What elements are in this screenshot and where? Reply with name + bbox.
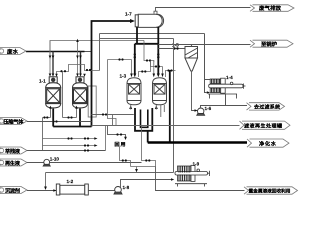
wire: drum top vent to off-gas banner — [154, 8, 251, 14]
wire: waste water feed line — [26, 51, 92, 53]
column T1-1a (A) — [46, 77, 61, 108]
pennant: regenerant — [0, 159, 27, 166]
svg-text:1-7: 1-7 — [125, 12, 132, 17]
wire: thin bottom pipes of columns C/D — [131, 105, 165, 117]
wire: heavy metal solution recovery line — [156, 167, 245, 191]
arrow into column C top — [133, 74, 136, 78]
pump P1-10 — [43, 159, 50, 166]
column T1-3a (C) — [127, 78, 141, 105]
wire: columns C/D regeneration drain stubs — [120, 126, 156, 170]
wire: cyclone underflow to pump 1-6 — [192, 71, 195, 111]
label reuse — [115, 141, 126, 148]
label 1-1 — [39, 79, 46, 84]
wire: top distribution header y=40 — [50, 41, 144, 57]
arrow into column D top — [157, 74, 160, 78]
pennant: to filtration system — [247, 103, 285, 110]
column T1-1b (B) — [73, 77, 88, 108]
wire: compressed gas line — [27, 121, 92, 123]
wire: valve row above columns A/B — [57, 65, 100, 75]
label 1-7 — [125, 12, 132, 17]
wire: regenerant line — [27, 162, 142, 164]
wire: exchanger outlet to pump 1-8 — [88, 190, 115, 192]
pennant: compressed gas — [0, 118, 27, 125]
label 1-4 — [226, 75, 233, 80]
svg-text:再生液: 再生液 — [5, 160, 21, 167]
label 1-6 — [205, 106, 212, 111]
svg-text:滤液再生处理罐: 滤液再生处理罐 — [244, 123, 282, 130]
svg-text:压缩气体: 压缩气体 — [4, 118, 25, 125]
pennant: precipitant — [0, 187, 27, 194]
valves on crossover — [60, 70, 66, 72]
filter press 1-9 — [175, 165, 210, 186]
wire: bold U manifold inner — [141, 110, 148, 128]
wire: pump 1-6 discharge up to filtration line — [201, 106, 226, 109]
pennant: to boiler banner — [250, 40, 293, 47]
pennant: raffinate — [0, 147, 27, 154]
svg-text:1-3: 1-3 — [120, 74, 127, 79]
pump P1-8 — [114, 187, 122, 195]
wire: bold product line to purified water — [148, 70, 170, 143]
wire: vertical from bus to filter press 1-4 feed — [205, 34, 211, 93]
wire: regeneration liquor header to treatment tank banner — [92, 125, 240, 127]
svg-text:至锅炉: 至锅炉 — [261, 41, 278, 48]
drum V1-7 horizontal vessel — [135, 14, 163, 27]
pennant: heavy metal solution recovery — [244, 187, 298, 194]
wire: thin feed drops to column A — [50, 41, 81, 75]
valve 1-5 on cyclone inlet — [173, 47, 178, 49]
wire: thick feed riser to drum — [92, 21, 131, 127]
label 1-8 — [123, 185, 130, 190]
wire: valve stubs right of columns C/D — [139, 61, 176, 78]
label 1-10 — [50, 157, 60, 162]
pennant: waste water — [0, 48, 26, 55]
wire: precipitant line into exchanger — [27, 190, 57, 192]
valve on column D riser — [157, 53, 159, 58]
svg-text:1-2: 1-2 — [67, 179, 74, 184]
wire: upper thin bus y=33 — [100, 33, 205, 35]
svg-text:沉淀剂: 沉淀剂 — [5, 187, 20, 194]
pennant: regen treatment tank — [240, 121, 291, 129]
wire: long right thin vertical — [173, 39, 175, 173]
column T1-3b (D) — [153, 78, 167, 105]
svg-text:1-4: 1-4 — [226, 75, 233, 80]
wire: press 1-4 filtrate to filtration system banner — [226, 94, 248, 106]
svg-text:重金属溶液回收利用: 重金属溶液回收利用 — [249, 188, 291, 194]
wire: bold bottom header of columns A/B — [53, 109, 91, 127]
wire: pump 1-8 discharge to press 1-9 — [121, 180, 172, 188]
wire: raffinate line — [27, 150, 106, 152]
arrows into column A/B actuators — [49, 74, 52, 77]
wire: arrow into drum 1-7 — [130, 19, 135, 23]
svg-text:废气排放: 废气排放 — [259, 5, 282, 12]
label 1-9 — [193, 162, 200, 167]
svg-text:净化水: 净化水 — [259, 141, 277, 148]
svg-text:回用: 回用 — [115, 141, 126, 148]
svg-text:1-8: 1-8 — [123, 185, 130, 190]
svg-text:萃残液: 萃残液 — [5, 148, 21, 155]
pump P1-6 — [197, 108, 205, 115]
heat exchanger E1-2 — [56, 184, 88, 195]
wire: thick drum bottom outlet to column D — [135, 27, 159, 75]
wire: vertical x=99 from bus down to valve row — [99, 34, 101, 71]
label 1-2 — [67, 179, 74, 184]
svg-text:1-1: 1-1 — [39, 79, 46, 84]
valve on column C riser — [134, 53, 136, 58]
svg-text:1-6: 1-6 — [205, 106, 212, 111]
label 1-3 — [120, 74, 127, 79]
label 1-5 — [172, 43, 179, 48]
svg-text:1-9: 1-9 — [193, 162, 200, 167]
filter press 1-4 — [208, 78, 246, 98]
wire: reuse tap with valve — [108, 126, 126, 138]
svg-text:去过滤系统: 去过滤系统 — [254, 104, 280, 111]
pennant: off-gas outlet banner (right top) — [250, 5, 294, 12]
cyclone separator S1-5 — [185, 47, 198, 72]
svg-text:1-10: 1-10 — [50, 157, 60, 162]
wire: bold U manifold under columns C/D (outer) — [135, 108, 152, 131]
arrows up into columns C/D bottoms — [129, 105, 132, 109]
valves on column A feed drops — [49, 56, 82, 59]
svg-text:废水: 废水 — [7, 48, 19, 55]
pennant: purified water — [247, 139, 289, 147]
standpipe loop beside column B — [88, 86, 96, 117]
wire: thin bottom pipes of columns A/B with valve row — [43, 72, 134, 151]
wire: cyclone inlet — [158, 48, 185, 50]
wire: cyclone overhead to boiler banner — [158, 45, 250, 47]
hatch of press 1-9 stacks — [179, 166, 190, 181]
wire: feed drops to columns C/D with valve stubs — [108, 41, 163, 126]
wire: recycle line to exchanger feed — [46, 173, 174, 188]
wire: upper thin bus y=36.5 — [100, 38, 174, 40]
hatch of press 1-4 stacks — [212, 79, 220, 93]
wire: mid-left valve rows — [43, 126, 106, 151]
